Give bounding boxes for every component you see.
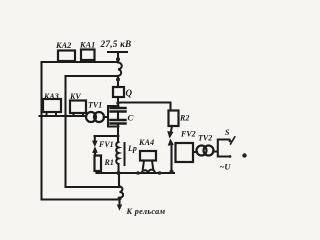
wire FV2 to bus xyxy=(170,145,172,171)
inductor Lp xyxy=(116,142,118,164)
stray dot right xyxy=(242,153,246,157)
wire outer vertical to DT bottom tap xyxy=(42,198,120,200)
wire main to Q xyxy=(117,76,119,87)
svg-text:~U: ~U xyxy=(220,162,232,172)
arrow to rails xyxy=(117,205,122,211)
wire left inner vertical xyxy=(64,76,66,187)
switch Q xyxy=(113,87,124,97)
svg-text:К рельсам: К рельсам xyxy=(126,207,166,216)
coil winding on main line xyxy=(118,63,122,77)
svg-text:TV1: TV1 xyxy=(88,101,102,110)
svg-text:C: C xyxy=(128,113,134,123)
switch S top contact dot xyxy=(229,140,232,143)
junction dot KA4 right xyxy=(158,171,162,175)
relay KA2 xyxy=(58,51,75,62)
wire inner vertical to DT top tap xyxy=(66,186,120,188)
svg-text:R1: R1 xyxy=(104,158,114,167)
svg-text:FV1: FV1 xyxy=(98,140,114,149)
relay KA1 xyxy=(81,50,95,61)
wire bottom bus xyxy=(97,172,175,174)
wire bus to DT xyxy=(118,173,120,186)
wire between capacitors xyxy=(117,112,119,121)
switch S blade xyxy=(231,137,235,144)
resistor R2 xyxy=(169,111,179,127)
svg-text:R2: R2 xyxy=(179,114,189,123)
wire C2 down to Lp xyxy=(117,124,119,143)
wire main line top xyxy=(117,52,119,62)
relay KA4 xyxy=(140,151,156,161)
wire node A to R2 xyxy=(118,103,171,111)
bottom transformer winding DT xyxy=(120,186,124,198)
arrester FV1 xyxy=(94,136,96,141)
svg-text:КА3: КА3 xyxy=(43,92,59,101)
relay KV xyxy=(70,101,86,114)
resistor R1 xyxy=(95,156,102,172)
transformer TV1 xyxy=(86,112,96,122)
svg-text:KV: KV xyxy=(69,92,81,101)
winding KA4 on bus xyxy=(142,170,156,173)
junction dot TV1 bottom arm xyxy=(117,125,120,128)
switch S bottom contact dot xyxy=(229,155,232,158)
junction dot KA4 left xyxy=(136,171,140,175)
junction dot main at bus xyxy=(117,171,121,175)
junction dot top bus1 xyxy=(116,57,120,61)
svg-text:КА2: КА2 xyxy=(55,41,71,50)
wire TV2 output bracket xyxy=(213,140,229,157)
junction dot FV2 bottom xyxy=(170,170,174,174)
core bar of Lp xyxy=(124,143,126,165)
wire bus1 KA1/KA2 xyxy=(42,61,119,63)
junction dot DT tap xyxy=(118,197,122,201)
wire KA3/KV bus to TV1 xyxy=(40,115,87,117)
svg-text:S: S xyxy=(225,128,230,137)
svg-text:Q: Q xyxy=(126,88,133,98)
junction dot FV1 tap xyxy=(117,135,120,138)
wire bus2 xyxy=(66,75,119,77)
capacitor C2 xyxy=(111,120,126,124)
svg-text:КА1: КА1 xyxy=(79,41,95,50)
node 27.5kV top terminal bar xyxy=(108,51,127,53)
junction dot TV1 top arm xyxy=(117,105,120,108)
arrester FV2 xyxy=(171,126,172,132)
svg-text:FV2: FV2 xyxy=(180,130,196,139)
svg-text:КА4: КА4 xyxy=(138,138,154,147)
wire Lp to bottom bus xyxy=(117,164,119,173)
svg-text:Lр: Lр xyxy=(127,144,137,153)
box damping unit xyxy=(176,143,194,162)
svg-text:27,5 кВ: 27,5 кВ xyxy=(100,39,132,49)
wire box to TV2 xyxy=(193,151,197,153)
capacitor C1 xyxy=(111,108,126,112)
wire Q to node A xyxy=(117,97,119,108)
wire FV1 tap xyxy=(95,135,119,137)
wire left outer vertical xyxy=(40,62,42,200)
wire DT to rails arrow shaft xyxy=(118,198,120,205)
junction dot bus2 xyxy=(116,78,120,82)
relay KA3 xyxy=(43,99,61,112)
svg-text:TV2: TV2 xyxy=(198,134,212,143)
wire TV1 bracket xyxy=(104,106,118,127)
junction dot node A xyxy=(116,101,119,104)
transformer TV2 xyxy=(197,146,207,156)
